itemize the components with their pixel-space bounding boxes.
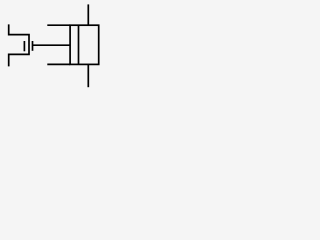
wire top plate extension xyxy=(47,24,70,26)
wire bottom terminal xyxy=(87,64,89,87)
transistor Q1 drain-source outline (drain stub, drain lead, channel bar, source lead, source stub) xyxy=(9,24,29,66)
transistor Q1 gate bar xyxy=(32,41,34,51)
wire bottom plate extension xyxy=(47,63,70,65)
wire gate lead to transducer xyxy=(33,44,71,46)
transistor Q1 left bar xyxy=(23,41,25,51)
transducer box xyxy=(70,25,99,64)
transducer internal divider xyxy=(78,25,80,64)
wire top terminal xyxy=(87,4,89,25)
background xyxy=(0,0,106,90)
